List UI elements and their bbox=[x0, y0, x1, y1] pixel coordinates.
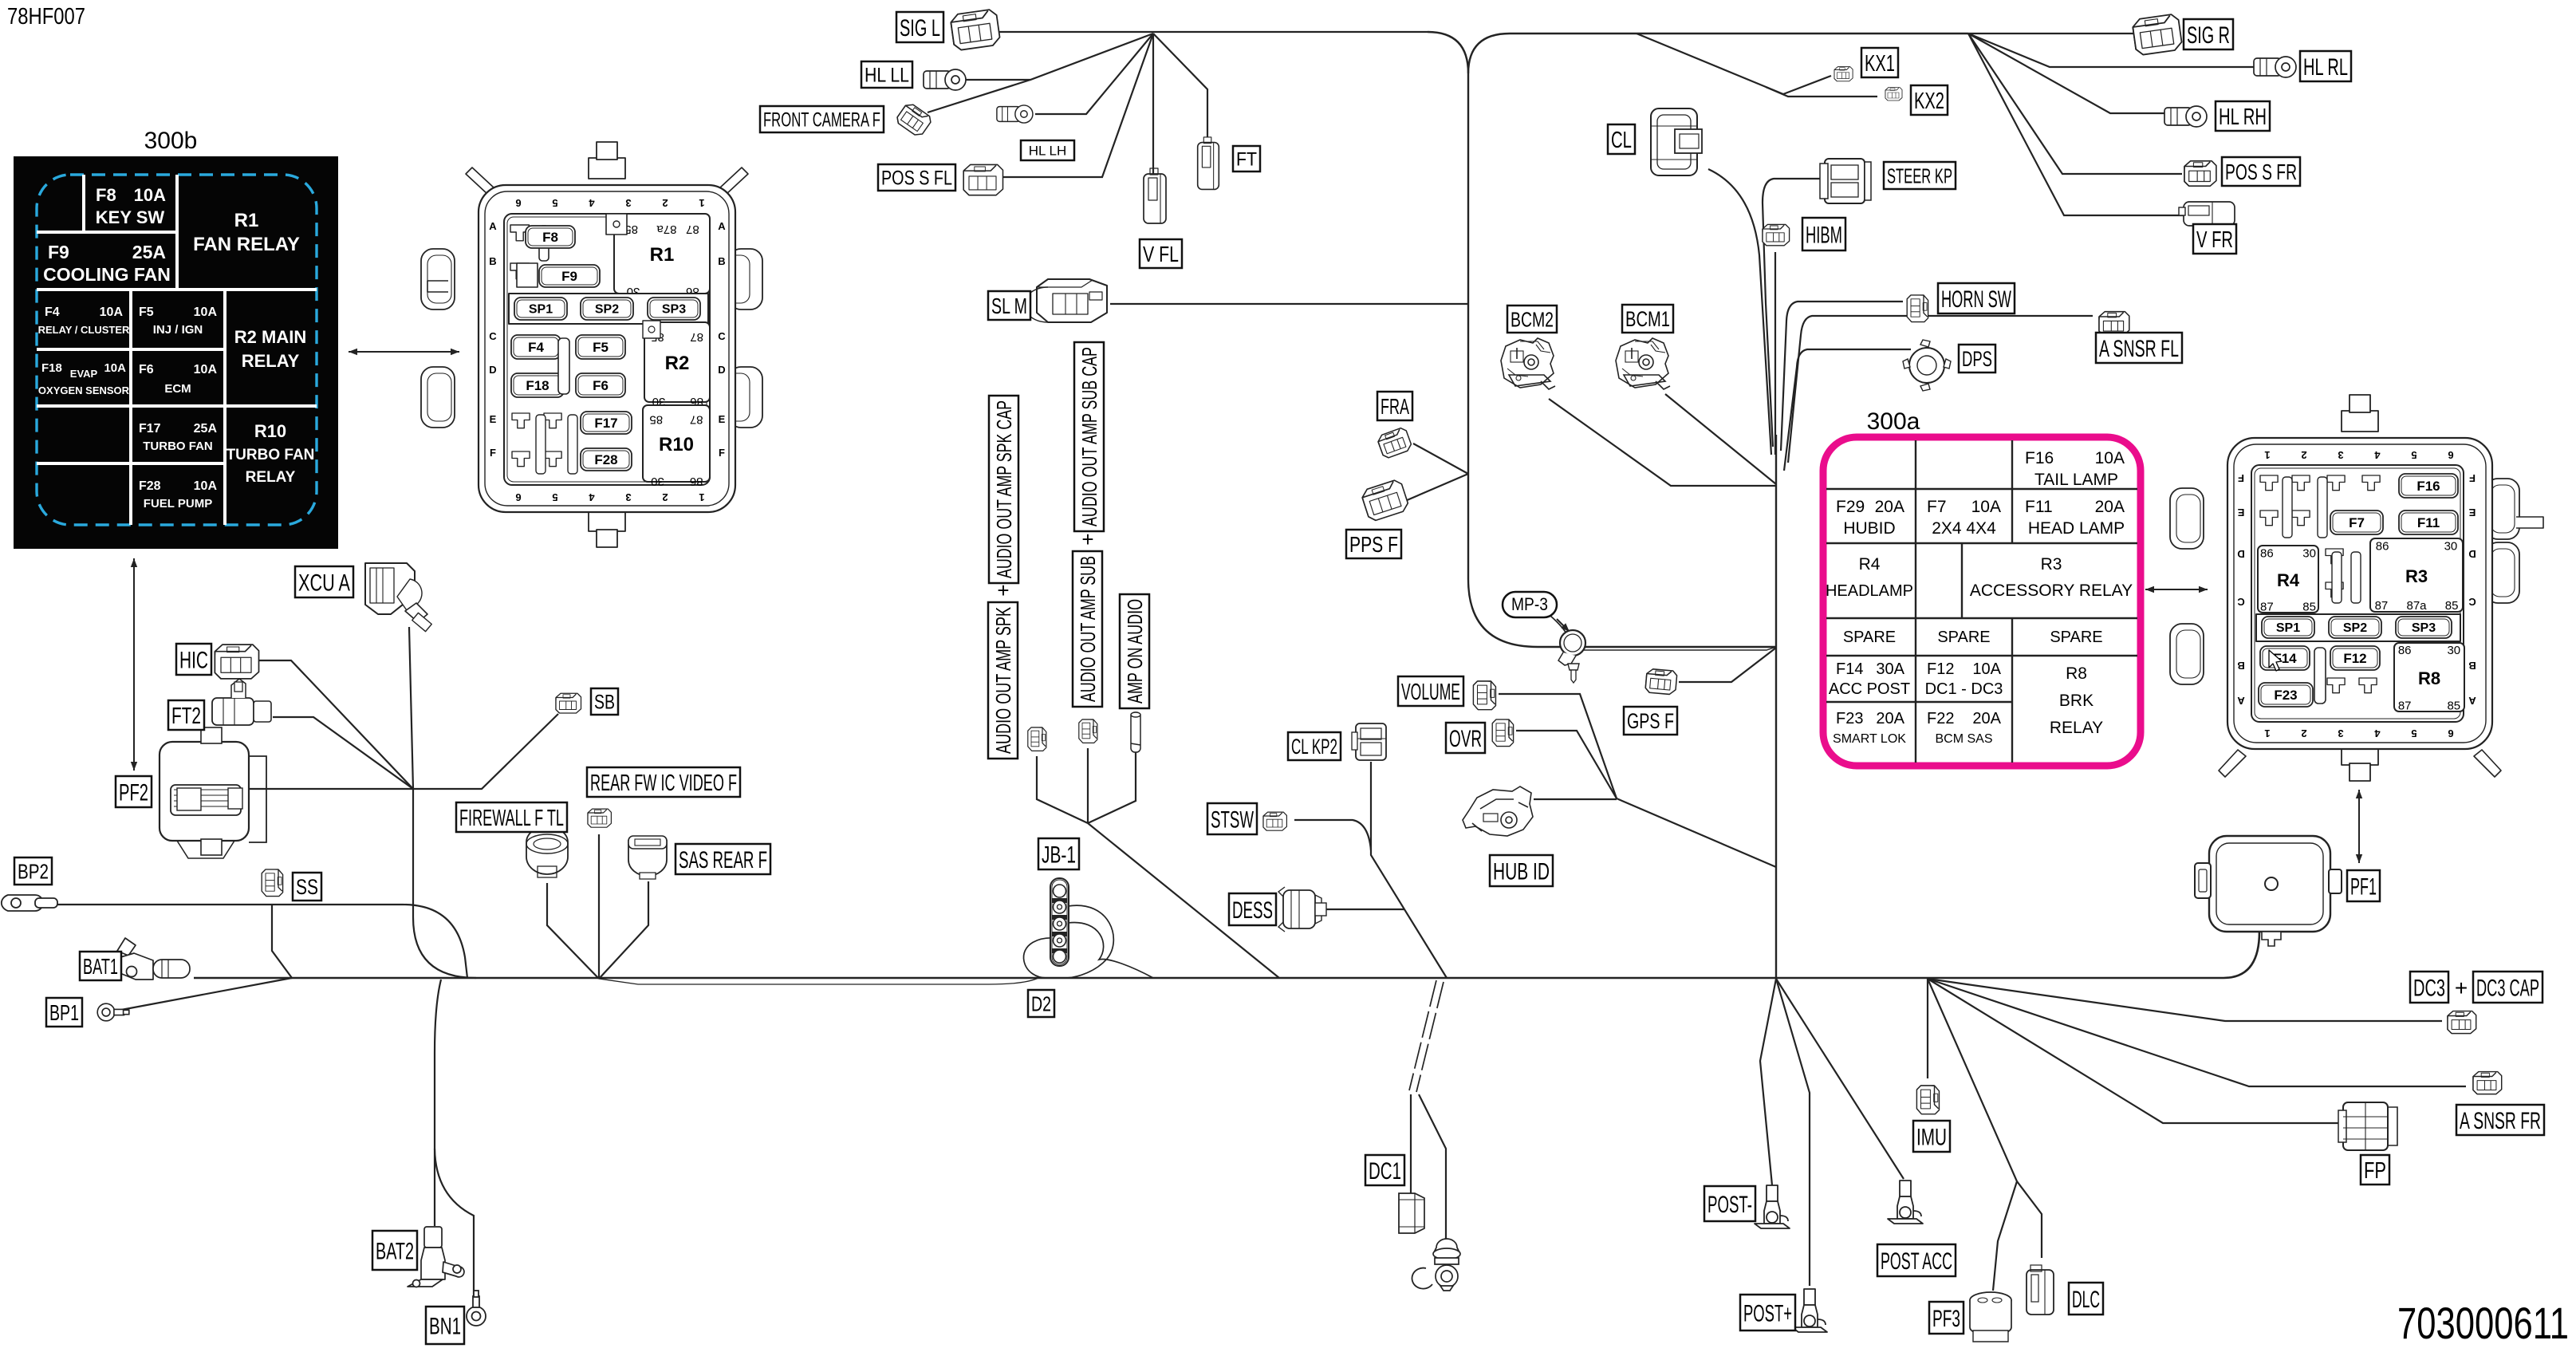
svg-text:F6: F6 bbox=[139, 363, 154, 376]
svg-text:INJ / IGN: INJ / IGN bbox=[153, 323, 203, 337]
svg-text:KEY SW: KEY SW bbox=[96, 207, 165, 227]
svg-text:DC1: DC1 bbox=[1369, 1158, 1401, 1185]
svg-text:F5: F5 bbox=[593, 340, 609, 355]
svg-text:V FL: V FL bbox=[1143, 242, 1179, 266]
svg-text:ACCESSORY RELAY: ACCESSORY RELAY bbox=[1970, 581, 2133, 600]
svg-text:SP2: SP2 bbox=[2343, 621, 2367, 635]
svg-text:F16: F16 bbox=[2416, 479, 2440, 494]
svg-text:87: 87 bbox=[2398, 699, 2412, 712]
svg-text:87a: 87a bbox=[656, 223, 677, 236]
svg-text:R1: R1 bbox=[234, 210, 259, 231]
svg-text:20A: 20A bbox=[2095, 498, 2125, 516]
svg-text:HL RL: HL RL bbox=[2303, 54, 2348, 81]
svg-text:AUDIO OUT AMP SUB CAP: AUDIO OUT AMP SUB CAP bbox=[1077, 347, 1101, 526]
svg-text:F: F bbox=[490, 447, 496, 459]
svg-text:HIBM: HIBM bbox=[1806, 222, 1842, 248]
svg-text:TURBO FAN: TURBO FAN bbox=[226, 447, 315, 463]
svg-text:FT2: FT2 bbox=[171, 704, 201, 729]
svg-text:FT: FT bbox=[1236, 149, 1257, 171]
svg-text:F8: F8 bbox=[96, 185, 116, 205]
svg-text:E: E bbox=[2468, 507, 2476, 518]
svg-text:R2 MAIN: R2 MAIN bbox=[234, 327, 306, 347]
svg-text:86: 86 bbox=[690, 475, 703, 488]
svg-text:F22: F22 bbox=[1927, 710, 1954, 727]
svg-text:SP3: SP3 bbox=[2412, 621, 2436, 635]
svg-text:F16: F16 bbox=[2025, 449, 2054, 467]
svg-text:2: 2 bbox=[662, 491, 668, 503]
svg-text:XCU A: XCU A bbox=[298, 570, 350, 596]
svg-text:AUDIO OUT AMP SPK CAP: AUDIO OUT AMP SPK CAP bbox=[992, 400, 1016, 578]
svg-text:HL RH: HL RH bbox=[2219, 104, 2267, 130]
svg-text:R10: R10 bbox=[254, 421, 286, 441]
svg-text:F: F bbox=[719, 447, 725, 459]
svg-text:4: 4 bbox=[589, 197, 595, 209]
svg-text:AMP ON AUDIO: AMP ON AUDIO bbox=[1123, 599, 1147, 704]
svg-text:DESS: DESS bbox=[1232, 897, 1273, 924]
svg-text:FRA: FRA bbox=[1381, 394, 1409, 419]
svg-text:F17: F17 bbox=[594, 416, 617, 431]
svg-text:POST ACC: POST ACC bbox=[1881, 1248, 1952, 1275]
svg-text:ACC POST: ACC POST bbox=[1829, 680, 1910, 698]
svg-text:D: D bbox=[718, 364, 725, 376]
svg-text:D: D bbox=[2237, 548, 2244, 560]
svg-text:F28: F28 bbox=[594, 452, 617, 467]
svg-text:87: 87 bbox=[690, 412, 703, 426]
svg-text:6: 6 bbox=[2448, 449, 2453, 461]
svg-text:20A: 20A bbox=[1972, 710, 2001, 727]
svg-text:SL M: SL M bbox=[991, 294, 1027, 318]
svg-text:R3: R3 bbox=[2405, 566, 2428, 586]
svg-text:20A: 20A bbox=[1876, 710, 1904, 727]
svg-text:SIG R: SIG R bbox=[2187, 22, 2230, 49]
svg-text:F9: F9 bbox=[48, 242, 69, 262]
svg-text:TAIL LAMP: TAIL LAMP bbox=[2034, 471, 2118, 489]
svg-text:BN1: BN1 bbox=[429, 1313, 461, 1339]
svg-text:87: 87 bbox=[2260, 600, 2274, 613]
svg-text:B: B bbox=[2468, 660, 2476, 672]
svg-text:300a: 300a bbox=[1867, 408, 1920, 435]
svg-text:703000611: 703000611 bbox=[2397, 1298, 2569, 1348]
svg-text:HUB ID: HUB ID bbox=[1493, 858, 1550, 885]
svg-text:30: 30 bbox=[2444, 540, 2458, 554]
svg-text:F11: F11 bbox=[2025, 498, 2053, 516]
svg-text:SIG L: SIG L bbox=[900, 15, 940, 41]
svg-text:4: 4 bbox=[589, 491, 595, 503]
svg-text:10A: 10A bbox=[134, 185, 166, 205]
svg-text:R1: R1 bbox=[650, 244, 675, 266]
svg-text:DPS: DPS bbox=[1962, 347, 1992, 371]
svg-text:CL KP2: CL KP2 bbox=[1291, 735, 1337, 759]
svg-text:87: 87 bbox=[2375, 599, 2389, 613]
svg-text:PF2: PF2 bbox=[119, 779, 148, 806]
svg-text:AUDIO OUT AMP SUB: AUDIO OUT AMP SUB bbox=[1076, 556, 1100, 702]
svg-text:F18: F18 bbox=[41, 361, 62, 375]
svg-text:SP1: SP1 bbox=[529, 303, 553, 317]
svg-text:A: A bbox=[2468, 695, 2476, 707]
svg-text:F5: F5 bbox=[139, 306, 154, 319]
svg-text:KX2: KX2 bbox=[1914, 89, 1944, 114]
svg-text:SMART LOK: SMART LOK bbox=[1833, 732, 1906, 746]
svg-text:GPS F: GPS F bbox=[1627, 709, 1674, 733]
svg-text:D: D bbox=[489, 364, 496, 376]
svg-text:C: C bbox=[718, 330, 726, 342]
svg-text:85: 85 bbox=[649, 412, 663, 426]
svg-text:HIC: HIC bbox=[179, 647, 208, 673]
svg-text:25A: 25A bbox=[132, 242, 166, 262]
svg-text:B: B bbox=[489, 255, 496, 267]
svg-text:FAN RELAY: FAN RELAY bbox=[193, 234, 300, 255]
svg-text:1: 1 bbox=[699, 197, 704, 209]
svg-text:10A: 10A bbox=[2095, 449, 2125, 467]
svg-text:SP1: SP1 bbox=[2276, 621, 2300, 635]
svg-text:F29: F29 bbox=[1836, 498, 1865, 516]
svg-text:BAT1: BAT1 bbox=[83, 954, 118, 979]
svg-text:F18: F18 bbox=[526, 378, 549, 393]
svg-text:86: 86 bbox=[2260, 546, 2274, 560]
svg-text:F11: F11 bbox=[2417, 515, 2440, 530]
svg-text:HEADLAMP: HEADLAMP bbox=[1826, 582, 1913, 600]
svg-text:SP2: SP2 bbox=[595, 303, 619, 317]
svg-text:CL: CL bbox=[1611, 128, 1632, 153]
svg-text:F4: F4 bbox=[45, 306, 60, 319]
svg-text:BCM SAS: BCM SAS bbox=[1935, 732, 1992, 746]
svg-text:COOLING FAN: COOLING FAN bbox=[43, 264, 171, 285]
svg-text:86: 86 bbox=[2376, 540, 2389, 554]
svg-text:C: C bbox=[489, 330, 497, 342]
svg-text:VOLUME: VOLUME bbox=[1401, 680, 1460, 705]
svg-text:R2: R2 bbox=[665, 353, 690, 374]
svg-text:R4: R4 bbox=[2277, 570, 2300, 590]
svg-text:R8: R8 bbox=[2066, 664, 2087, 683]
svg-text:REAR FW IC VIDEO F: REAR FW IC VIDEO F bbox=[590, 771, 737, 796]
svg-text:F6: F6 bbox=[593, 378, 609, 393]
svg-text:POS S FR: POS S FR bbox=[2225, 160, 2297, 184]
svg-text:F7: F7 bbox=[2349, 515, 2365, 530]
svg-text:PF1: PF1 bbox=[2350, 873, 2377, 900]
svg-text:HORN SW: HORN SW bbox=[1941, 286, 2011, 313]
svg-text:POST-: POST- bbox=[1707, 1192, 1752, 1218]
svg-text:5: 5 bbox=[2411, 727, 2416, 739]
svg-text:OVR: OVR bbox=[1449, 726, 1482, 752]
svg-text:87: 87 bbox=[686, 223, 699, 236]
svg-text:10A: 10A bbox=[1971, 498, 2001, 516]
svg-text:10A: 10A bbox=[104, 361, 126, 375]
svg-text:10A: 10A bbox=[194, 306, 218, 319]
svg-text:R10: R10 bbox=[659, 434, 694, 455]
svg-text:PF3: PF3 bbox=[1932, 1306, 1960, 1332]
svg-text:4: 4 bbox=[2374, 727, 2381, 739]
svg-text:FP: FP bbox=[2364, 1158, 2386, 1184]
svg-text:PPS F: PPS F bbox=[1349, 532, 1398, 557]
svg-text:R4: R4 bbox=[1859, 555, 1881, 574]
svg-text:RELAY: RELAY bbox=[242, 351, 300, 371]
svg-text:85: 85 bbox=[2445, 599, 2459, 613]
svg-text:F28: F28 bbox=[139, 479, 161, 493]
svg-text:BRK: BRK bbox=[2059, 692, 2093, 710]
svg-text:F12: F12 bbox=[1927, 660, 1954, 678]
svg-text:R3: R3 bbox=[2041, 555, 2062, 574]
svg-text:SPARE: SPARE bbox=[1843, 629, 1896, 646]
svg-text:HL LH: HL LH bbox=[1029, 144, 1067, 159]
svg-text:FRONT CAMERA F: FRONT CAMERA F bbox=[763, 109, 880, 132]
svg-text:F12: F12 bbox=[2343, 651, 2366, 666]
svg-text:HEAD LAMP: HEAD LAMP bbox=[2028, 519, 2125, 538]
svg-text:6: 6 bbox=[515, 491, 521, 503]
svg-text:BCM2: BCM2 bbox=[1511, 307, 1554, 331]
svg-text:BCM1: BCM1 bbox=[1625, 307, 1670, 331]
svg-text:SB: SB bbox=[594, 692, 615, 714]
svg-text:F4: F4 bbox=[528, 340, 544, 355]
svg-text:2: 2 bbox=[662, 197, 668, 209]
svg-text:A: A bbox=[489, 220, 497, 232]
svg-text:85: 85 bbox=[2302, 600, 2316, 613]
svg-text:87: 87 bbox=[690, 330, 703, 344]
svg-text:1: 1 bbox=[2264, 449, 2270, 461]
svg-text:A SNSR FL: A SNSR FL bbox=[2099, 336, 2179, 362]
svg-text:1: 1 bbox=[2264, 727, 2270, 739]
svg-text:E: E bbox=[2237, 507, 2244, 518]
svg-text:DLC: DLC bbox=[2072, 1287, 2100, 1313]
svg-text:2X4 4X4: 2X4 4X4 bbox=[1932, 519, 1996, 538]
svg-text:F: F bbox=[2469, 472, 2476, 484]
svg-text:2: 2 bbox=[2301, 727, 2306, 739]
svg-text:F17: F17 bbox=[139, 422, 161, 436]
svg-text:EVAP: EVAP bbox=[70, 368, 98, 380]
svg-text:3: 3 bbox=[625, 491, 631, 503]
svg-text:85: 85 bbox=[2447, 699, 2460, 712]
svg-text:R8: R8 bbox=[2418, 668, 2440, 688]
svg-text:F23: F23 bbox=[2274, 688, 2297, 703]
svg-text:5: 5 bbox=[552, 197, 557, 209]
svg-text:SPARE: SPARE bbox=[2050, 629, 2102, 646]
svg-text:10A: 10A bbox=[194, 479, 218, 493]
svg-text:RELAY: RELAY bbox=[246, 469, 296, 486]
svg-text:6: 6 bbox=[2448, 727, 2453, 739]
svg-text:HL LL: HL LL bbox=[865, 65, 909, 87]
svg-text:C: C bbox=[2468, 596, 2476, 608]
svg-text:B: B bbox=[2237, 660, 2244, 672]
svg-text:E: E bbox=[719, 413, 726, 425]
svg-text:HUBID: HUBID bbox=[1843, 519, 1895, 538]
svg-text:30: 30 bbox=[2447, 644, 2460, 657]
svg-text:5: 5 bbox=[552, 491, 557, 503]
svg-text:STEER KP: STEER KP bbox=[1887, 164, 1952, 187]
svg-text:KX1: KX1 bbox=[1865, 51, 1895, 77]
svg-text:POST+: POST+ bbox=[1743, 1300, 1792, 1326]
svg-text:10A: 10A bbox=[100, 306, 124, 319]
svg-text:4: 4 bbox=[2374, 449, 2381, 461]
svg-text:30: 30 bbox=[651, 475, 664, 488]
svg-text:F9: F9 bbox=[561, 269, 577, 284]
svg-text:D: D bbox=[2468, 548, 2476, 560]
svg-text:3: 3 bbox=[2338, 727, 2343, 739]
svg-text:87a: 87a bbox=[2406, 599, 2427, 613]
svg-text:2: 2 bbox=[2301, 449, 2306, 461]
svg-text:A: A bbox=[718, 220, 726, 232]
svg-text:RELAY / CLUSTER: RELAY / CLUSTER bbox=[38, 324, 130, 336]
svg-text:DC3 CAP: DC3 CAP bbox=[2476, 975, 2539, 1001]
svg-text:IMU: IMU bbox=[1916, 1124, 1947, 1150]
svg-text:F23: F23 bbox=[1836, 710, 1863, 727]
svg-text:6: 6 bbox=[515, 197, 521, 209]
svg-text:10A: 10A bbox=[194, 363, 218, 376]
svg-text:JB-1: JB-1 bbox=[1042, 842, 1076, 868]
svg-text:E: E bbox=[490, 413, 497, 425]
svg-text:SAS REAR F: SAS REAR F bbox=[679, 847, 767, 873]
svg-text:FIREWALL F TL: FIREWALL F TL bbox=[459, 806, 564, 831]
svg-text:ECM: ECM bbox=[164, 382, 191, 396]
svg-text:BP1: BP1 bbox=[49, 1000, 79, 1025]
svg-text:+: + bbox=[2455, 976, 2468, 1000]
svg-text:F14: F14 bbox=[1836, 660, 1863, 678]
svg-text:86: 86 bbox=[2398, 644, 2412, 657]
svg-text:TURBO FAN: TURBO FAN bbox=[143, 440, 213, 453]
svg-text:MP-3: MP-3 bbox=[1511, 594, 1548, 614]
svg-text:DC1 - DC3: DC1 - DC3 bbox=[1925, 680, 2003, 698]
svg-text:BAT2: BAT2 bbox=[376, 1238, 414, 1264]
svg-text:SS: SS bbox=[296, 875, 318, 899]
svg-text:5: 5 bbox=[2411, 449, 2416, 461]
svg-text:78HF007: 78HF007 bbox=[7, 4, 85, 30]
svg-text:F8: F8 bbox=[542, 230, 558, 245]
svg-text:AUDIO OUT AMP SPK: AUDIO OUT AMP SPK bbox=[991, 607, 1015, 754]
svg-text:30A: 30A bbox=[1876, 660, 1904, 678]
svg-text:DC3: DC3 bbox=[2413, 975, 2445, 1001]
svg-text:A: A bbox=[2237, 695, 2245, 707]
svg-text:3: 3 bbox=[2338, 449, 2343, 461]
svg-text:RELAY: RELAY bbox=[2050, 719, 2103, 737]
svg-text:OXYGEN SENSOR: OXYGEN SENSOR bbox=[38, 384, 130, 396]
svg-text:SPARE: SPARE bbox=[1937, 629, 1990, 646]
svg-text:10A: 10A bbox=[1972, 660, 2001, 678]
svg-text:1: 1 bbox=[699, 491, 704, 503]
svg-text:300b: 300b bbox=[144, 128, 198, 154]
svg-text:30: 30 bbox=[2302, 546, 2316, 560]
svg-text:A SNSR FR: A SNSR FR bbox=[2460, 1108, 2541, 1134]
svg-text:BP2: BP2 bbox=[18, 859, 49, 883]
svg-text:20A: 20A bbox=[1875, 498, 1904, 516]
svg-text:SP3: SP3 bbox=[662, 303, 686, 317]
svg-text:25A: 25A bbox=[194, 422, 218, 436]
svg-text:POS S FL: POS S FL bbox=[881, 168, 952, 190]
svg-text:C: C bbox=[2237, 596, 2245, 608]
svg-text:3: 3 bbox=[625, 197, 631, 209]
svg-text:F: F bbox=[2238, 472, 2244, 484]
svg-text:F7: F7 bbox=[1927, 498, 1947, 516]
svg-text:STSW: STSW bbox=[1211, 806, 1254, 833]
svg-text:B: B bbox=[718, 255, 725, 267]
svg-text:D2: D2 bbox=[1031, 991, 1051, 1015]
svg-text:FUEL PUMP: FUEL PUMP bbox=[144, 497, 212, 510]
svg-text:V FR: V FR bbox=[2196, 227, 2233, 253]
